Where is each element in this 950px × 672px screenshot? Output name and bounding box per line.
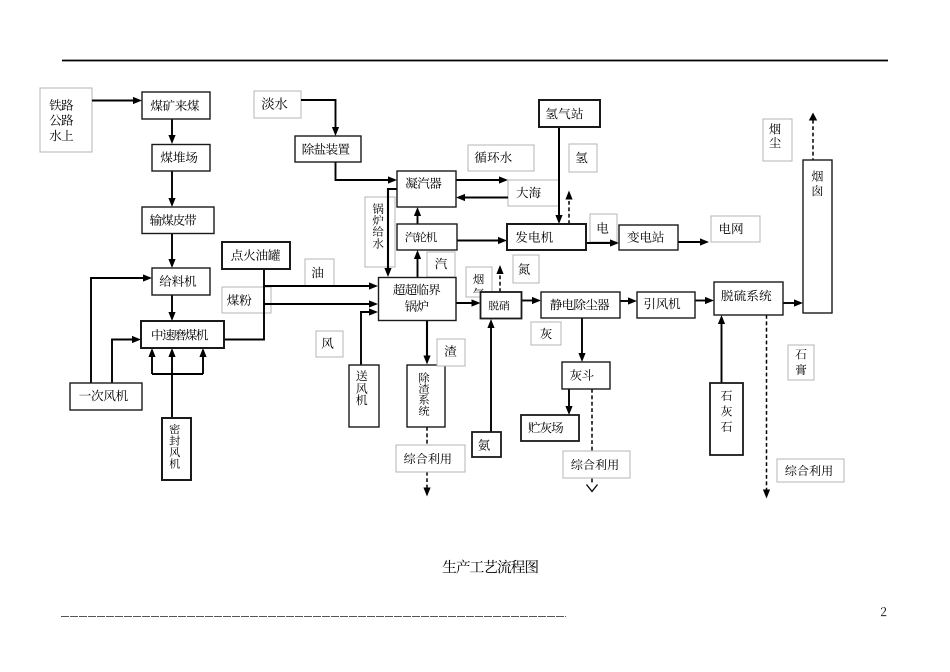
arrow 煤矿来煤 to 煤堆场 bbox=[168, 119, 175, 144]
box 凝汽器 bbox=[397, 171, 456, 207]
wire 一次风机 to 给料机 bbox=[91, 274, 152, 383]
arrow 引风机 to 脱硫系统 bbox=[695, 297, 714, 304]
caption 生产工艺流程图 bbox=[443, 560, 538, 574]
arrow steam 汽 boiler to 汽轮机 bbox=[414, 250, 421, 277]
text 烟囱 bbox=[812, 171, 823, 197]
text 汽轮机 bbox=[405, 232, 437, 243]
box 引风机 bbox=[637, 292, 695, 318]
text 凝汽器 bbox=[406, 177, 442, 189]
label box 铁路公路水上 bbox=[40, 88, 92, 152]
box 煤堆场 bbox=[152, 145, 210, 172]
box 一次风机 bbox=[70, 383, 142, 410]
arrow manifold mid into 中速磨煤机 bbox=[168, 348, 175, 374]
label box 烟气 bbox=[466, 267, 492, 297]
text 综合利用 below 灰斗 bbox=[571, 459, 618, 470]
label box 氢 bbox=[569, 144, 597, 172]
arrow 脱硫系统 to 烟囱 bbox=[783, 299, 803, 306]
box 除渣系统 bbox=[407, 365, 445, 427]
label box 渣 (over 除渣系统 corner) bbox=[437, 339, 465, 366]
arrow 氢气站 to 发电机 bbox=[555, 127, 562, 224]
arrow 输煤皮带 to 给料机 bbox=[168, 234, 175, 269]
text 送风机 bbox=[356, 370, 367, 405]
text 静电除尘器 bbox=[550, 299, 609, 311]
arrow 发电机 to 变电站 电 bbox=[586, 239, 619, 246]
arrow 汽轮机 to 凝汽器 bbox=[414, 207, 421, 224]
text 一次风机 bbox=[79, 390, 128, 402]
text 铁路公路水上 bbox=[49, 99, 73, 141]
text 给料机 bbox=[160, 275, 197, 287]
box 煤矿来煤 bbox=[142, 92, 210, 119]
wire 一次风机 to 中速磨煤机 bbox=[112, 336, 141, 383]
box 发电机 bbox=[507, 224, 586, 250]
text 脱硝 bbox=[489, 301, 510, 311]
text 电网 bbox=[720, 223, 743, 235]
label box 循环水 bbox=[468, 145, 534, 171]
text 输煤皮带 bbox=[150, 214, 196, 226]
label box 灰 bbox=[531, 322, 561, 345]
arrow 铁路公路水上 to 煤矿来煤 bbox=[92, 97, 142, 104]
box 烟囱 bbox=[803, 160, 832, 313]
label box 电 bbox=[590, 214, 617, 242]
text 综合利用 right bbox=[785, 465, 832, 476]
bottom separator line bbox=[61, 616, 566, 618]
label box 风 bbox=[316, 331, 343, 357]
text 大海 bbox=[516, 187, 540, 199]
box 除盐装置 bbox=[295, 136, 361, 162]
label box 油 bbox=[305, 259, 334, 286]
arrow 煤堆场 to 输煤皮带 bbox=[168, 170, 175, 207]
text 综合利用 below 除渣系统 bbox=[404, 453, 451, 464]
arrow oil line 油 into boiler bbox=[264, 282, 378, 289]
text 汽 bbox=[435, 258, 447, 270]
text 超超临界锅炉 line1 bbox=[393, 284, 440, 296]
box 静电除尘器 bbox=[541, 292, 620, 318]
box 氨 bbox=[472, 432, 501, 457]
label box 煤粉 bbox=[222, 287, 271, 313]
text 贮灰场 bbox=[528, 422, 563, 434]
dashed arrow 脱硝 nitrogen vent bbox=[496, 265, 503, 292]
text 变电站 bbox=[627, 231, 663, 243]
box 脱硝 bbox=[481, 292, 522, 319]
page number 2 bbox=[881, 607, 886, 616]
arrow 石灰石 to 脱硫系统 bbox=[718, 315, 725, 383]
text 氨 bbox=[478, 439, 490, 451]
box 汽轮机 bbox=[397, 224, 457, 250]
text 超超临界锅炉 line2 bbox=[405, 300, 428, 312]
wire 密封风机 manifold bbox=[152, 373, 203, 375]
text 电 bbox=[598, 222, 609, 233]
box 石灰石 bbox=[710, 383, 743, 455]
text 石膏 bbox=[795, 349, 806, 375]
box 贮灰场 bbox=[521, 415, 579, 441]
arrow 变电站 to 电网 bbox=[678, 238, 709, 245]
arrow wind line 风 into boiler from 送风机 bbox=[361, 308, 378, 365]
box 中速磨煤机 bbox=[141, 321, 224, 348]
box 脱硫系统 bbox=[714, 282, 783, 315]
text 风 bbox=[322, 337, 334, 348]
text 密封风机 bbox=[169, 424, 180, 469]
label box 大海 bbox=[508, 180, 559, 206]
arrow manifold left into 中速磨煤机 bbox=[148, 348, 155, 374]
arrow 大海 to 凝汽器 bbox=[456, 194, 508, 201]
wire 除盐装置 to 凝汽器 bbox=[336, 162, 398, 184]
text 煤堆场 bbox=[161, 151, 198, 163]
text 氢 bbox=[576, 152, 588, 164]
label box 氮 bbox=[513, 255, 539, 283]
text 点火油罐 bbox=[231, 249, 280, 261]
arrow feedwater 凝汽器 to boiler 锅炉给水 bbox=[384, 189, 397, 277]
text 氮 bbox=[518, 263, 530, 275]
text 灰 bbox=[540, 328, 552, 340]
wire 点火油罐 drop + mill link bbox=[224, 269, 264, 340]
text 淡水 bbox=[262, 97, 288, 109]
label box 电网 bbox=[711, 216, 760, 242]
box 灰斗 bbox=[562, 362, 610, 389]
text 锅炉给水 bbox=[373, 203, 384, 248]
text 渣 bbox=[445, 345, 457, 357]
dashed arrow 脱硫系统 gypsum to 综合利用 bbox=[763, 315, 770, 499]
box 输煤皮带 bbox=[142, 207, 214, 234]
box 超超临界锅炉 bbox=[379, 278, 457, 321]
arrow boiler slag to 除渣系统 bbox=[423, 321, 430, 365]
label text 烟气 (clipped by 脱硝 box) bbox=[473, 274, 484, 298]
box 变电站 bbox=[619, 225, 678, 250]
arrow 静电除尘器 to 引风机 bbox=[620, 297, 637, 304]
text 发电机 bbox=[516, 231, 553, 243]
dashed arrow generator hydrogen vent bbox=[565, 191, 572, 225]
text 煤粉 bbox=[227, 294, 251, 306]
label box 综合利用 right bbox=[777, 459, 844, 482]
arrow manifold right into 中速磨煤机 bbox=[199, 348, 206, 374]
text 循环水 bbox=[475, 151, 512, 163]
box 密封风机 bbox=[162, 418, 191, 480]
dashed arrow 除渣系统 to 综合利用 bbox=[423, 427, 430, 497]
arrow 静电除尘器 ash to 灰斗 bbox=[578, 318, 585, 362]
dashed arrow chimney flue exhaust 烟尘 bbox=[809, 113, 817, 163]
arrow 氨 to 脱硝 bbox=[487, 319, 494, 432]
label box 烟尘 bbox=[763, 119, 792, 161]
text 脱硫系统 bbox=[721, 290, 771, 302]
text 除盐装置 bbox=[303, 143, 350, 155]
arrow 灰斗 to 贮灰场 bbox=[565, 389, 572, 415]
text 石灰石 bbox=[721, 390, 732, 432]
dashed arrow 灰斗 to 综合利用 (open head) bbox=[587, 389, 598, 492]
box 点火油罐 bbox=[222, 242, 290, 269]
label box 综合利用 below 灰斗 bbox=[563, 451, 630, 478]
label box 淡水 bbox=[254, 91, 301, 118]
label box 锅炉给水 bbox=[365, 197, 395, 267]
wire 淡水 to 除盐装置 bbox=[301, 100, 339, 136]
wire 密封风机 riser bbox=[171, 374, 173, 418]
arrow 脱硝 to 静电除尘器 bbox=[522, 297, 542, 304]
text 氢气站 bbox=[546, 108, 583, 120]
box 送风机 bbox=[349, 365, 379, 427]
arrow 给料机 to 中速磨煤机 bbox=[168, 295, 175, 321]
arrow 凝汽器 to 大海 bbox=[456, 176, 508, 183]
text 引风机 bbox=[644, 298, 680, 310]
box 氢气站 bbox=[539, 100, 600, 127]
text 灰斗 bbox=[570, 369, 594, 381]
label box 石膏 bbox=[788, 345, 814, 380]
box 给料机 bbox=[152, 268, 210, 295]
text 煤矿来煤 bbox=[151, 100, 199, 112]
text 中速磨煤机 bbox=[152, 329, 208, 341]
arrow 汽轮机 to 发电机 bbox=[457, 237, 507, 244]
text 烟尘 bbox=[769, 123, 780, 147]
arrow boiler flue to 脱硝 bbox=[456, 299, 481, 306]
arrow coal line 煤粉 into boiler bbox=[264, 300, 378, 307]
text 除渣系统 bbox=[419, 372, 430, 416]
label box 综合利用 below 除渣系统 bbox=[396, 445, 465, 472]
label box 汽 bbox=[427, 252, 455, 277]
text 油 bbox=[312, 267, 324, 279]
top rule line bbox=[62, 60, 888, 62]
